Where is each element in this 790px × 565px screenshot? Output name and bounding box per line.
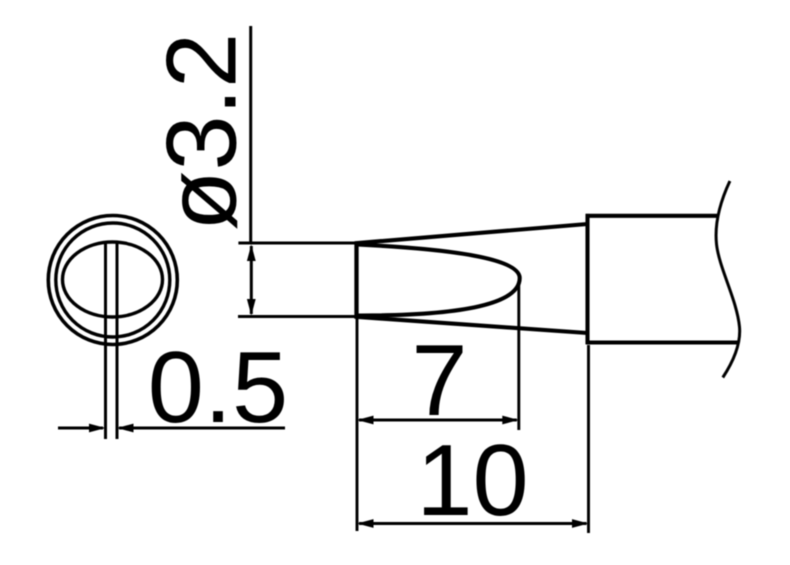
0.5 dimension line right segment bbox=[119, 427, 285, 430]
collar front edge bbox=[585, 214, 589, 344]
0.5 left arrowhead bbox=[89, 424, 106, 433]
shank bottom edge bbox=[586, 340, 739, 344]
0.5 right arrowhead bbox=[117, 424, 134, 433]
bottom taper line bbox=[355, 317, 588, 333]
slot left edge line bbox=[104, 243, 107, 439]
7 dimension line bbox=[359, 419, 517, 422]
svg-text:10: 10 bbox=[416, 425, 528, 537]
tip face edge bbox=[354, 242, 358, 319]
end view outer circle bbox=[48, 216, 177, 345]
svg-text:ø3.2: ø3.2 bbox=[146, 33, 257, 231]
diameter 3.2 dimension arrow line bbox=[250, 246, 253, 314]
top taper line bbox=[355, 224, 588, 243]
bottom extension line of tip face bbox=[238, 315, 357, 318]
tip face extension line down bbox=[356, 319, 359, 532]
7 left arrowhead bbox=[357, 416, 374, 425]
top extension line of tip face bbox=[238, 242, 357, 245]
7 right arrowhead bbox=[502, 416, 519, 425]
0.5 dimension line left segment bbox=[58, 427, 103, 430]
shank top edge bbox=[586, 214, 718, 218]
10 right arrowhead bbox=[572, 519, 589, 528]
slot right edge line bbox=[116, 243, 119, 439]
diameter 3.2 up arrowhead bbox=[247, 245, 256, 262]
diameter 3.2 down arrowhead bbox=[247, 299, 256, 316]
diameter 3.2 leader line bbox=[249, 26, 252, 244]
end view inner circle bbox=[56, 223, 170, 337]
shank extension line down bbox=[587, 345, 590, 533]
svg-text:7: 7 bbox=[411, 325, 467, 437]
break line bbox=[716, 181, 740, 378]
chisel ground-face curve bbox=[357, 245, 520, 316]
end view chisel-face ellipse bbox=[63, 242, 163, 317]
10 left arrowhead bbox=[357, 519, 374, 528]
svg-text:0.5: 0.5 bbox=[148, 332, 288, 444]
7 extension line from curve vertex bbox=[517, 281, 520, 430]
10 dimension line bbox=[359, 522, 587, 525]
